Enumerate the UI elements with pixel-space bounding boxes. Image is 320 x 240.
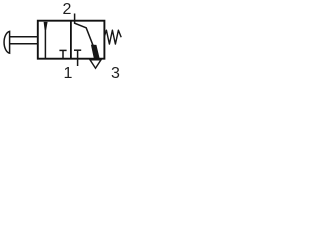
svg-text:2: 2	[63, 1, 72, 18]
svg-text:3: 3	[111, 65, 120, 82]
svg-text:1: 1	[64, 65, 73, 82]
